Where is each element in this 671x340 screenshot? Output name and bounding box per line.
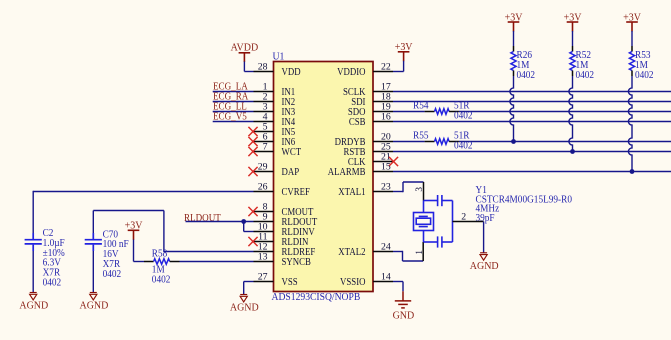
- value labels R54 51R 0402: [413, 100, 473, 121]
- svg-text:26: 26: [258, 181, 268, 192]
- power port +3V (VDDIO): [395, 42, 413, 61]
- svg-text:VSSIO: VSSIO: [340, 276, 365, 288]
- pin 28 VDD (left): [254, 61, 301, 78]
- pin 18 SDI (right): [351, 91, 393, 108]
- pin 21 CLK (right): [348, 151, 393, 168]
- svg-text:28: 28: [258, 61, 268, 72]
- svg-text:AGND: AGND: [230, 302, 259, 313]
- wire net ECG_V5: [213, 121, 254, 123]
- wire SCLK: [393, 91, 671, 93]
- power port +3V (R52): [564, 12, 582, 31]
- svg-text:CSB: CSB: [349, 116, 366, 128]
- pin 27 VSS (left): [254, 271, 298, 288]
- pin 1 IN1 (left): [254, 81, 296, 98]
- svg-text:27: 27: [258, 271, 268, 282]
- wire XTAL2 to resonator: [393, 242, 423, 261]
- wire AVDD to pin 28: [244, 62, 253, 72]
- wire RLDREF: C70 to pin 12: [93, 211, 253, 252]
- no-connect X on pin 7: [248, 147, 257, 156]
- wire GND stem: [402, 291, 404, 300]
- svg-text:GND: GND: [393, 310, 415, 321]
- resistor R52: [570, 52, 575, 71]
- wire +3V to pin 22: [393, 61, 404, 72]
- svg-text:CVREF: CVREF: [282, 186, 311, 198]
- no-connect X on pin 6: [248, 137, 257, 146]
- value labels C2 1.0uF: [43, 228, 66, 289]
- wire SDI: [393, 101, 671, 103]
- no-connect X on pin 11: [248, 237, 257, 246]
- svg-text:AVDD: AVDD: [231, 42, 259, 53]
- no-connect X on pin 5: [248, 127, 257, 136]
- pin 16 CSB (right): [349, 111, 393, 128]
- svg-text:SYNCB: SYNCB: [282, 256, 311, 268]
- pin 7 WCT (left): [254, 141, 302, 158]
- pin 20 DRDYB (right): [335, 131, 393, 148]
- wire ALARMB: [393, 171, 671, 173]
- wire RLDOUT to pin 9: [186, 221, 254, 223]
- pin 5 IN5 (left): [254, 121, 296, 138]
- net label ECG_LL: [213, 101, 247, 113]
- value labels Y1 CSTCR4M00G15L99-R0: [476, 185, 573, 225]
- value labels R52 1M 0402: [576, 50, 595, 81]
- resistor R55: [435, 139, 450, 145]
- svg-text:XTAL1: XTAL1: [338, 186, 365, 198]
- junction R52: [570, 149, 575, 154]
- net label ECG_LA: [213, 81, 248, 93]
- svg-text:WCT: WCT: [282, 146, 302, 158]
- wire +3V to R26: [513, 31, 515, 52]
- ground GND (earth): [393, 301, 415, 322]
- svg-text:39pF: 39pF: [476, 213, 496, 224]
- pin 29 DAP (left): [254, 161, 300, 178]
- svg-text:ECG_V5: ECG_V5: [213, 111, 247, 123]
- pin 6 IN6 (left): [254, 131, 296, 148]
- svg-text:DAP: DAP: [282, 166, 300, 178]
- wire +3V to R52: [572, 31, 574, 52]
- svg-text:13: 13: [258, 251, 268, 262]
- wire DRDYB (right of R55): [449, 141, 671, 143]
- designator U1: [273, 51, 285, 62]
- pin 25 RSTB (right): [343, 141, 393, 158]
- pin 3 label (resonator): [414, 187, 424, 192]
- svg-text:AGND: AGND: [19, 300, 48, 311]
- svg-text:1: 1: [414, 250, 424, 255]
- resistor R53: [629, 52, 634, 71]
- pin 13 SYNCB (left): [254, 251, 311, 268]
- wire +3V to R58: [134, 240, 154, 262]
- svg-text:0402: 0402: [454, 110, 473, 121]
- pin 23 XTAL1 (right): [338, 181, 393, 198]
- svg-text:15: 15: [381, 161, 391, 172]
- capacitor C2: [25, 233, 42, 251]
- value labels R55 51R 0402: [413, 130, 473, 151]
- svg-text:24: 24: [381, 241, 391, 252]
- pin 8 CMOUT (left): [254, 201, 314, 218]
- value label ADS1293CISQ/NOPB: [272, 291, 361, 303]
- ground AGND (C2): [19, 293, 48, 312]
- svg-text:0402: 0402: [103, 269, 122, 280]
- svg-text:VDDIO: VDDIO: [337, 66, 365, 78]
- net label RLDOUT: [184, 213, 221, 225]
- pin 26 CVREF (left): [254, 181, 311, 198]
- pin 11 RLDIN (left): [254, 231, 309, 248]
- wire RSTB: [393, 151, 671, 153]
- wire R26 to bus (with hops): [513, 71, 515, 77]
- pin 2 label (resonator): [461, 212, 466, 223]
- svg-text:VSS: VSS: [282, 276, 298, 288]
- no-connect X on pin 29: [248, 167, 257, 176]
- svg-text:R54: R54: [413, 100, 429, 111]
- resonator Y1: [414, 195, 453, 248]
- no-connect X on pin 21: [389, 157, 398, 166]
- wire CSB: [393, 121, 671, 123]
- wire C70 to AGND: [92, 251, 94, 292]
- svg-text:ADS1293CISQ/NOPB: ADS1293CISQ/NOPB: [272, 291, 361, 303]
- pin 22 VDDIO (right): [337, 61, 393, 78]
- resistor R58: [154, 259, 170, 265]
- svg-text:AGND: AGND: [470, 261, 499, 272]
- svg-text:0402: 0402: [576, 70, 595, 81]
- wire CVREF: pin 26 to C2: [33, 191, 253, 233]
- wire R53 to bus (with hops): [631, 71, 633, 77]
- wire SDO (left of R54): [393, 111, 435, 113]
- value labels R58 1M 0402: [152, 248, 171, 285]
- svg-text:VDD: VDD: [282, 66, 301, 78]
- power port +3V (R26): [505, 12, 523, 31]
- wire SDO (right of R54): [449, 111, 671, 113]
- wire VSSIO to GND: [393, 282, 403, 292]
- svg-text:0402: 0402: [454, 140, 473, 151]
- svg-text:XTAL2: XTAL2: [338, 246, 365, 258]
- wire net ECG_RA: [213, 101, 254, 103]
- pin 14 VSSIO (right): [340, 271, 393, 288]
- wire R58 to pin 13 SYNCB: [170, 261, 254, 263]
- svg-text:7: 7: [263, 141, 268, 152]
- wire XTAL1 to resonator: [393, 182, 424, 201]
- pin 2 IN2 (left): [254, 91, 296, 108]
- pin 9 RLDOUT (left): [254, 211, 318, 228]
- pin 19 SDO (right): [348, 101, 393, 118]
- svg-text:29: 29: [258, 161, 268, 172]
- wire RLDOUT branch to pin 10: [244, 222, 254, 232]
- power port +3V (R58): [125, 220, 143, 239]
- svg-text:23: 23: [381, 181, 391, 192]
- svg-text:14: 14: [381, 271, 391, 282]
- resistor R26: [511, 52, 516, 71]
- wire net ECG_LL: [213, 111, 254, 113]
- value labels R53 1M 0402: [635, 50, 654, 81]
- power port AVDD: [231, 42, 259, 62]
- svg-text:U1: U1: [273, 51, 285, 62]
- value labels C70 100nF: [103, 229, 130, 280]
- power port +3V (R53): [623, 12, 641, 31]
- wire R52 to bus (with hops): [572, 71, 574, 77]
- wire +3V to R53: [631, 31, 633, 52]
- svg-text:0402: 0402: [635, 70, 654, 81]
- no-connect X on pin 8: [248, 207, 257, 216]
- svg-text:22: 22: [381, 61, 391, 72]
- svg-text:0402: 0402: [517, 70, 536, 81]
- svg-text:16: 16: [381, 111, 391, 122]
- wire C2 to AGND: [32, 251, 34, 292]
- svg-text:0402: 0402: [152, 274, 171, 285]
- pin 4 IN4 (left): [254, 111, 296, 128]
- ground AGND (VSS): [230, 295, 259, 314]
- junction R26: [511, 139, 516, 144]
- pin 17 SCLK (right): [343, 81, 393, 98]
- svg-text:3: 3: [414, 187, 424, 192]
- svg-text:AGND: AGND: [79, 300, 108, 311]
- wire DRDYB (left of R55): [393, 141, 435, 143]
- pin 1 label (resonator): [414, 250, 424, 255]
- capacitor C70: [85, 233, 102, 251]
- ground AGND (Y1): [470, 253, 499, 272]
- value labels R26 1M 0402: [517, 50, 536, 81]
- pin 3 IN3 (left): [254, 101, 296, 118]
- IC U1 ADS1293 body: [274, 62, 374, 292]
- svg-text:R55: R55: [413, 130, 429, 141]
- svg-text:R58: R58: [152, 248, 168, 259]
- svg-text:ALARMB: ALARMB: [328, 166, 366, 178]
- ground AGND (C70): [79, 293, 108, 312]
- pin 10 RLDINV (left): [254, 221, 315, 238]
- pin 12 RLDREF (left): [254, 241, 316, 258]
- net label ECG_V5: [213, 111, 247, 123]
- junction RLDOUT: [241, 219, 246, 224]
- wire net ECG_LA: [213, 91, 254, 93]
- junction R53: [630, 169, 635, 174]
- pin 24 XTAL2 (right): [338, 241, 393, 258]
- pin 15 ALARMB (right): [328, 161, 393, 178]
- wire resonator pin 2 to AGND: [453, 222, 484, 253]
- svg-text:RLDOUT: RLDOUT: [184, 213, 221, 225]
- net label ECG_RA: [213, 91, 248, 103]
- resistor R54: [435, 109, 450, 115]
- wire VSS to AGND: [244, 282, 254, 295]
- svg-text:0402: 0402: [43, 277, 62, 288]
